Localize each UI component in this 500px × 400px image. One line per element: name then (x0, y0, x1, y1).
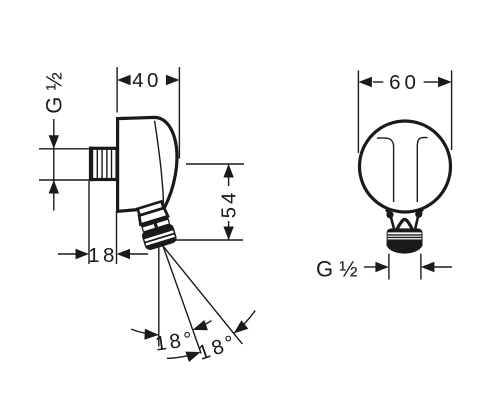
dimension 60 line + arrows (373, 81, 438, 83)
front view: pivot pins (387, 210, 392, 217)
svg-text:60: 60 (389, 71, 420, 94)
svg-text:G ½: G ½ (316, 257, 358, 282)
dimension 54 line + arrows (228, 164, 230, 240)
side view: pivoting nozzle (tilted 18 deg) (134, 200, 178, 251)
dimension 40 arrows (117, 75, 131, 85)
dimension 18 line + arrows (58, 253, 148, 255)
svg-text:18°: 18° (154, 327, 197, 355)
dimension 18 extension lines (89, 181, 117, 264)
dimension 60 extension lines (358, 70, 451, 153)
svg-text:18: 18 (88, 244, 118, 267)
side view: wall outlet body (118, 117, 177, 211)
front view: pivot side links (391, 217, 394, 229)
front view: G 1/2 dimension extension lines (389, 254, 421, 280)
angle dim 2: arrows (185, 352, 200, 362)
svg-text:54: 54 (218, 190, 241, 219)
front view: pivot arch (397, 219, 413, 229)
spray angle ray 18 deg (163, 246, 201, 354)
dimension 40 extension lines (117, 67, 179, 159)
side view: body highlight curve (155, 121, 164, 208)
angle dim 1: arrows (144, 329, 158, 340)
vertical reference line (158, 247, 160, 347)
angle dim 1: arc tails (131, 321, 211, 335)
angle dim 2: arc tails (167, 311, 255, 359)
svg-text:G ½: G ½ (42, 72, 67, 114)
front view: pivot tee curves (377, 137, 428, 202)
svg-text:40: 40 (132, 69, 162, 92)
side view: threaded connector G1/2 (89, 147, 117, 181)
dimension 54 extension lines (172, 164, 244, 240)
front view: G 1/2 dimension line + arrows (364, 266, 452, 268)
svg-text:18°: 18° (195, 330, 240, 365)
front view: nozzle collar (387, 228, 423, 253)
front view: escutcheon circle (360, 121, 451, 212)
side view: G 1/2 dimension line (39, 119, 91, 211)
spray angle ray 36 deg (163, 246, 242, 344)
